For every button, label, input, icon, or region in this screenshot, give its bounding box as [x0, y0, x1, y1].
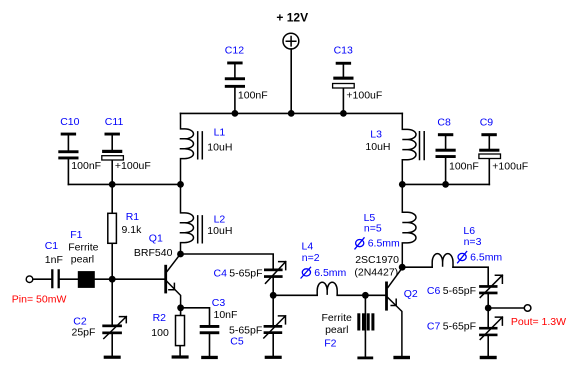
capacitor C10 — [58, 116, 101, 184]
svg-text:+100uF: +100uF — [115, 160, 151, 172]
inductor L1 — [180, 113, 233, 184]
svg-text:100: 100 — [151, 327, 169, 339]
wire collector row to L6 — [402, 266, 432, 268]
wire +12V lead — [290, 49, 292, 113]
node base junction — [109, 276, 116, 283]
svg-text:9.1k: 9.1k — [122, 224, 143, 236]
wire emitter row to C3 — [181, 308, 210, 325]
svg-text:10uH: 10uH — [207, 225, 232, 237]
ground C3 — [201, 356, 218, 359]
ground R2 — [172, 355, 189, 358]
capacitor C13 — [333, 45, 383, 114]
node output junction — [485, 305, 492, 312]
svg-text:n=5: n=5 — [364, 223, 382, 235]
variable capacitor C2 — [72, 279, 127, 355]
svg-text:BRF540: BRF540 — [134, 247, 173, 259]
inductor L2 — [180, 184, 233, 254]
svg-text:C6: C6 — [427, 285, 441, 297]
svg-text:C4: C4 — [214, 267, 228, 279]
wire right rail — [402, 183, 489, 185]
svg-text:F1: F1 — [70, 229, 82, 241]
wire left rail — [68, 183, 180, 185]
output port Pout — [488, 305, 566, 328]
svg-text:R2: R2 — [153, 312, 167, 324]
svg-text:Ferrite: Ferrite — [68, 241, 98, 253]
svg-text:25pF: 25pF — [72, 326, 96, 338]
svg-text:100nF: 100nF — [449, 161, 479, 173]
svg-text:100nF: 100nF — [71, 160, 101, 172]
svg-text:C9: C9 — [480, 117, 494, 129]
svg-text:C12: C12 — [225, 44, 244, 56]
svg-text:L4: L4 — [302, 241, 314, 253]
svg-text:C5: C5 — [230, 335, 244, 347]
transistor Q2 — [354, 254, 417, 356]
svg-text:C13: C13 — [334, 45, 353, 57]
svg-text:1nF: 1nF — [45, 254, 63, 266]
svg-text:C10: C10 — [60, 116, 79, 128]
svg-text:100nF: 100nF — [238, 90, 268, 102]
svg-text:Q2: Q2 — [404, 288, 418, 300]
wire mid row C4 node to L4 — [273, 294, 317, 296]
svg-text:C3: C3 — [212, 297, 226, 309]
capacitor C8 — [436, 117, 479, 185]
svg-text:n=3: n=3 — [464, 236, 482, 248]
svg-text:6.5mm: 6.5mm — [314, 267, 346, 279]
svg-text:n=2: n=2 — [302, 252, 320, 264]
diameter symbol L4 — [301, 267, 311, 279]
svg-text:R1: R1 — [126, 211, 140, 223]
variable capacitor C7 — [427, 308, 503, 356]
wire input to C1 — [33, 278, 51, 280]
inductor L3 — [365, 113, 424, 184]
ground F2 — [357, 357, 373, 360]
svg-text:+ 12V: + 12V — [276, 10, 308, 24]
inductor L4 — [301, 241, 347, 296]
node L3/L5 junction — [399, 181, 406, 188]
svg-text:L2: L2 — [214, 214, 226, 226]
wire top rail — [181, 112, 403, 114]
capacitor C1 — [45, 240, 63, 288]
inductor L6 — [432, 225, 502, 267]
node L1/L2 junction — [177, 181, 184, 188]
transistor Q1 — [134, 232, 181, 307]
svg-text:Q1: Q1 — [149, 232, 163, 244]
svg-text:Pin= 50mW: Pin= 50mW — [12, 293, 67, 305]
svg-text:10uH: 10uH — [207, 141, 232, 153]
svg-text:5-65pF: 5-65pF — [443, 320, 476, 332]
node Q1 collector junction — [177, 251, 184, 258]
ground Q2 emitter — [393, 356, 410, 359]
svg-text:pearl: pearl — [325, 324, 348, 336]
node C13 junction — [340, 110, 347, 117]
ferrite pearl F2 — [322, 295, 375, 356]
node C4/C5 junction — [270, 292, 277, 299]
node C12 junction — [232, 110, 239, 117]
capacitor C3 — [200, 297, 238, 356]
wire F1 to base node — [95, 278, 165, 280]
node supply junction — [288, 110, 295, 117]
+12V supply symbol — [276, 10, 308, 49]
wire C1 to F1 — [60, 278, 78, 280]
input port Pin — [12, 276, 67, 305]
ferrite pearl F1 — [68, 229, 98, 288]
svg-text:C7: C7 — [427, 320, 441, 332]
wire collector row to C4 — [181, 254, 274, 269]
svg-text:L1: L1 — [214, 126, 226, 138]
capacitor C12 — [225, 44, 268, 113]
svg-text:C1: C1 — [45, 240, 59, 252]
diameter symbol L6 — [457, 251, 467, 263]
svg-text:C8: C8 — [437, 117, 451, 129]
node Q2 collector junction — [399, 264, 406, 271]
svg-text:10uH: 10uH — [365, 141, 390, 153]
svg-text:F2: F2 — [324, 338, 336, 350]
svg-text:Pout= 1.3W: Pout= 1.3W — [511, 316, 566, 328]
ground C7 — [480, 356, 497, 359]
wire L6 to C6 — [453, 267, 488, 285]
svg-text:C11: C11 — [105, 116, 124, 128]
ground C5 — [265, 356, 282, 359]
svg-text:6.5mm: 6.5mm — [368, 238, 400, 250]
variable capacitor C4 — [214, 262, 286, 296]
svg-text:+100uF: +100uF — [492, 161, 528, 173]
resistor R1 — [108, 184, 142, 279]
node C8 junction — [442, 181, 449, 188]
wire L4 to F2 node — [337, 294, 385, 296]
svg-text:10nF: 10nF — [214, 309, 238, 321]
node C11/R1 junction — [109, 181, 116, 188]
resistor R2 — [151, 308, 184, 356]
variable capacitor C5 — [229, 295, 286, 355]
ground C2 — [104, 356, 121, 359]
svg-text:+100uF: +100uF — [346, 89, 382, 101]
diameter symbol L5 — [355, 237, 365, 249]
variable capacitor C6 — [427, 275, 503, 308]
capacitor C11 — [102, 116, 151, 184]
node F2 junction — [362, 292, 369, 299]
node Q1 emitter junction — [177, 304, 184, 311]
svg-text:5-65pF: 5-65pF — [443, 285, 476, 297]
svg-text:L3: L3 — [370, 129, 382, 141]
svg-text:Ferrite: Ferrite — [322, 312, 352, 324]
capacitor C9 — [479, 117, 528, 185]
svg-text:(2N4427): (2N4427) — [354, 267, 398, 279]
svg-text:5-65pF: 5-65pF — [229, 268, 262, 280]
svg-text:6.5mm: 6.5mm — [470, 252, 502, 264]
svg-text:2SC1970: 2SC1970 — [355, 254, 399, 266]
svg-text:pearl: pearl — [71, 254, 94, 266]
inductor L5 — [355, 184, 416, 267]
